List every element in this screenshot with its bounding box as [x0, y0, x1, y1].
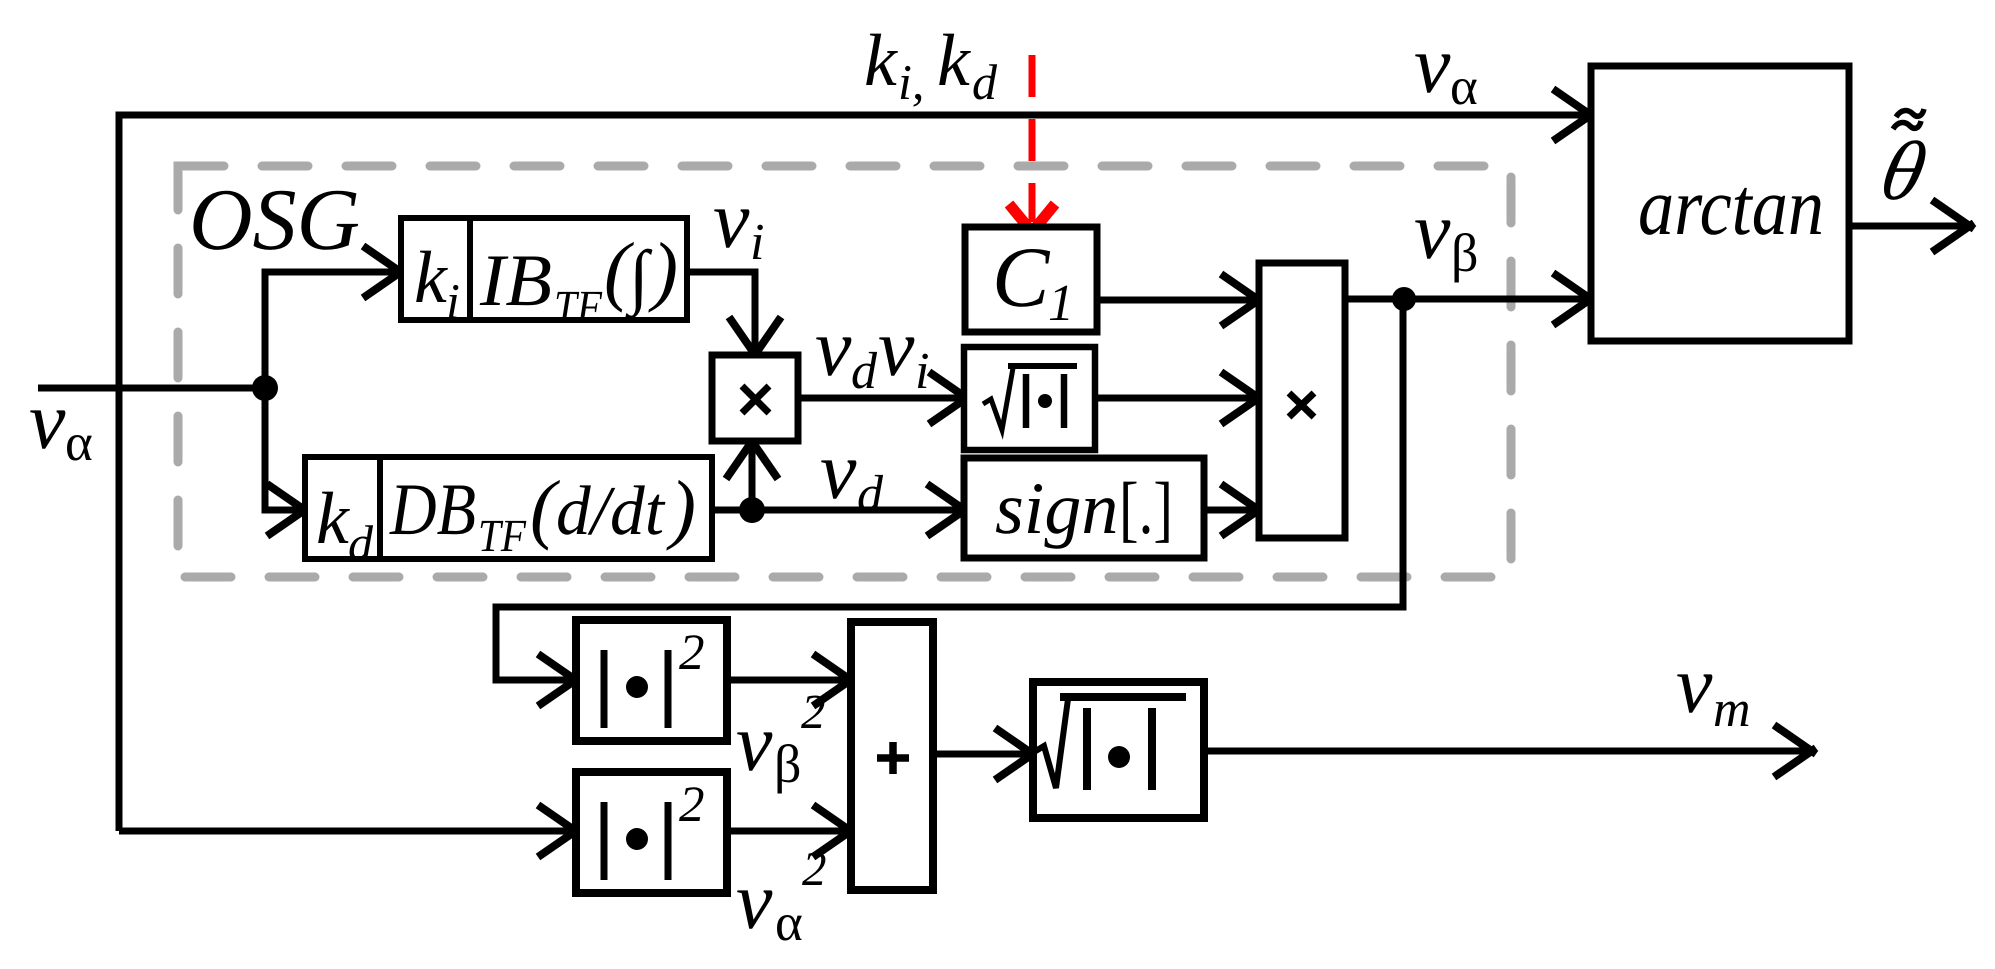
svg-text:): ) — [648, 226, 678, 313]
svg-text:i,: i, — [898, 54, 924, 110]
svg-text:k: k — [414, 237, 448, 319]
svg-text:v: v — [29, 375, 66, 466]
label v_beta — [1414, 185, 1478, 283]
svg-text:TF: TF — [478, 510, 527, 561]
svg-text:α: α — [65, 414, 93, 472]
svg-text:TF: TF — [554, 281, 603, 332]
label v_alpha (top into arctan) — [1414, 19, 1478, 116]
label ki in gain box — [414, 237, 460, 329]
block C1 compensator — [965, 227, 1097, 332]
svg-text:v: v — [1676, 639, 1713, 730]
wire sign output to product block — [1204, 484, 1263, 536]
svg-text:2: 2 — [679, 777, 705, 833]
block product tall x — [1259, 263, 1345, 538]
label ki,kd (red arrow source) — [864, 20, 998, 110]
svg-text:β: β — [774, 734, 801, 794]
svg-text:v: v — [820, 425, 857, 516]
wire C1 output to product block — [1096, 274, 1263, 326]
block arctan — [1591, 66, 1849, 341]
label v_beta squared — [736, 684, 826, 794]
svg-text:d: d — [857, 466, 884, 523]
svg-text:IB: IB — [479, 240, 552, 322]
label v_d — [820, 425, 884, 523]
label DB_TF(d/dt) in block — [389, 464, 696, 561]
svg-text:arctan: arctan — [1638, 161, 1824, 252]
svg-text:sign: sign — [995, 468, 1118, 550]
wire v_alpha trunk: left vertical and top run to arctan — [119, 89, 1595, 831]
node v_d junction — [739, 497, 765, 523]
block multiplier small x — [712, 355, 798, 441]
label v_alpha (left input) — [29, 375, 93, 472]
label sqrt-abs content (middle) — [983, 366, 1077, 430]
svg-text:d: d — [348, 515, 374, 571]
block squarer2 |.|^2 — [576, 772, 727, 893]
wire v_d from DB block to sign block — [712, 484, 969, 536]
svg-text:): ) — [666, 464, 696, 551]
label v_d v_i — [815, 302, 929, 400]
svg-text:d: d — [972, 54, 998, 110]
svg-text:α: α — [1450, 58, 1478, 116]
label C1 in block — [992, 229, 1074, 332]
svg-text:2: 2 — [802, 841, 827, 896]
svg-text:[.]: [.] — [1119, 468, 1173, 550]
wire v_d up into multiplier — [726, 437, 778, 510]
block squarer1 |.|^2 — [576, 620, 727, 741]
svg-text:C: C — [992, 229, 1051, 325]
block sqrt-abs (middle) — [964, 347, 1095, 450]
svg-text:1: 1 — [1048, 275, 1074, 332]
label kd in gain box — [316, 478, 374, 571]
svg-text:v: v — [878, 302, 915, 393]
label OSG — [189, 172, 360, 269]
svg-text:i: i — [750, 214, 764, 271]
svg-text:v: v — [1414, 19, 1451, 110]
wire v_d*v_i from multiplier to sqrt-abs block — [798, 372, 971, 424]
svg-text:v: v — [713, 174, 750, 265]
label sign[.] in block — [995, 468, 1173, 550]
block ki|IB_TF gain+integrator — [401, 218, 687, 320]
label v_i — [713, 174, 764, 271]
wire v_i from IB block to multiplier — [687, 272, 781, 359]
svg-text:v: v — [815, 302, 852, 393]
wire v_beta from product block to arctan — [1345, 273, 1595, 325]
block sign[.] — [964, 458, 1204, 558]
svg-text:i: i — [915, 343, 929, 400]
wire v_beta feedback to squarer — [496, 299, 1403, 706]
block adder + — [851, 622, 933, 890]
svg-text:β: β — [1451, 223, 1478, 283]
node v_alpha junction — [252, 375, 278, 401]
label arctan in block — [1638, 161, 1824, 252]
svg-text:d/dt: d/dt — [556, 473, 666, 550]
wire v_alpha bottom run to squarer — [119, 805, 580, 857]
svg-text:v: v — [736, 855, 773, 946]
wire dropper to kd block — [265, 388, 309, 536]
wire sqrt-abs output to product block — [1094, 372, 1263, 424]
block sqrt-abs (bottom) — [1033, 682, 1204, 818]
svg-text:m: m — [1713, 681, 1751, 738]
red dashed arrow ki,kd into C1 — [1009, 55, 1055, 232]
wire v_alpha input stub — [38, 385, 265, 392]
svg-text:2: 2 — [801, 684, 826, 739]
label theta tilde output — [1873, 109, 1934, 218]
block kd|DB_TF gain+differentiator — [305, 457, 712, 559]
wire v_m output — [1204, 725, 1816, 777]
svg-text:i: i — [446, 273, 460, 329]
label IB_TF(integral) in block — [479, 226, 678, 332]
wire squarer1 output to adder — [727, 654, 855, 706]
svg-text:k: k — [937, 20, 971, 102]
svg-text:v: v — [736, 697, 773, 788]
svg-text:α: α — [775, 894, 803, 952]
svg-text:k: k — [316, 478, 350, 560]
svg-text:d: d — [851, 343, 878, 400]
label v_m — [1676, 639, 1751, 738]
svg-text:k: k — [864, 20, 898, 102]
svg-text:DB: DB — [389, 469, 476, 551]
svg-text:OSG: OSG — [189, 172, 360, 269]
label v_alpha squared — [736, 841, 827, 952]
wire adder output to sqrt block — [933, 728, 1037, 780]
node v_beta junction — [1392, 287, 1416, 311]
wire squarer2 output to adder — [727, 805, 855, 857]
svg-text:v: v — [1414, 185, 1451, 276]
wire theta output from arctan — [1849, 200, 1974, 252]
OSG dashed boundary box — [178, 166, 1511, 577]
wire riser to ki block — [265, 246, 405, 388]
svg-text:2: 2 — [679, 625, 705, 681]
